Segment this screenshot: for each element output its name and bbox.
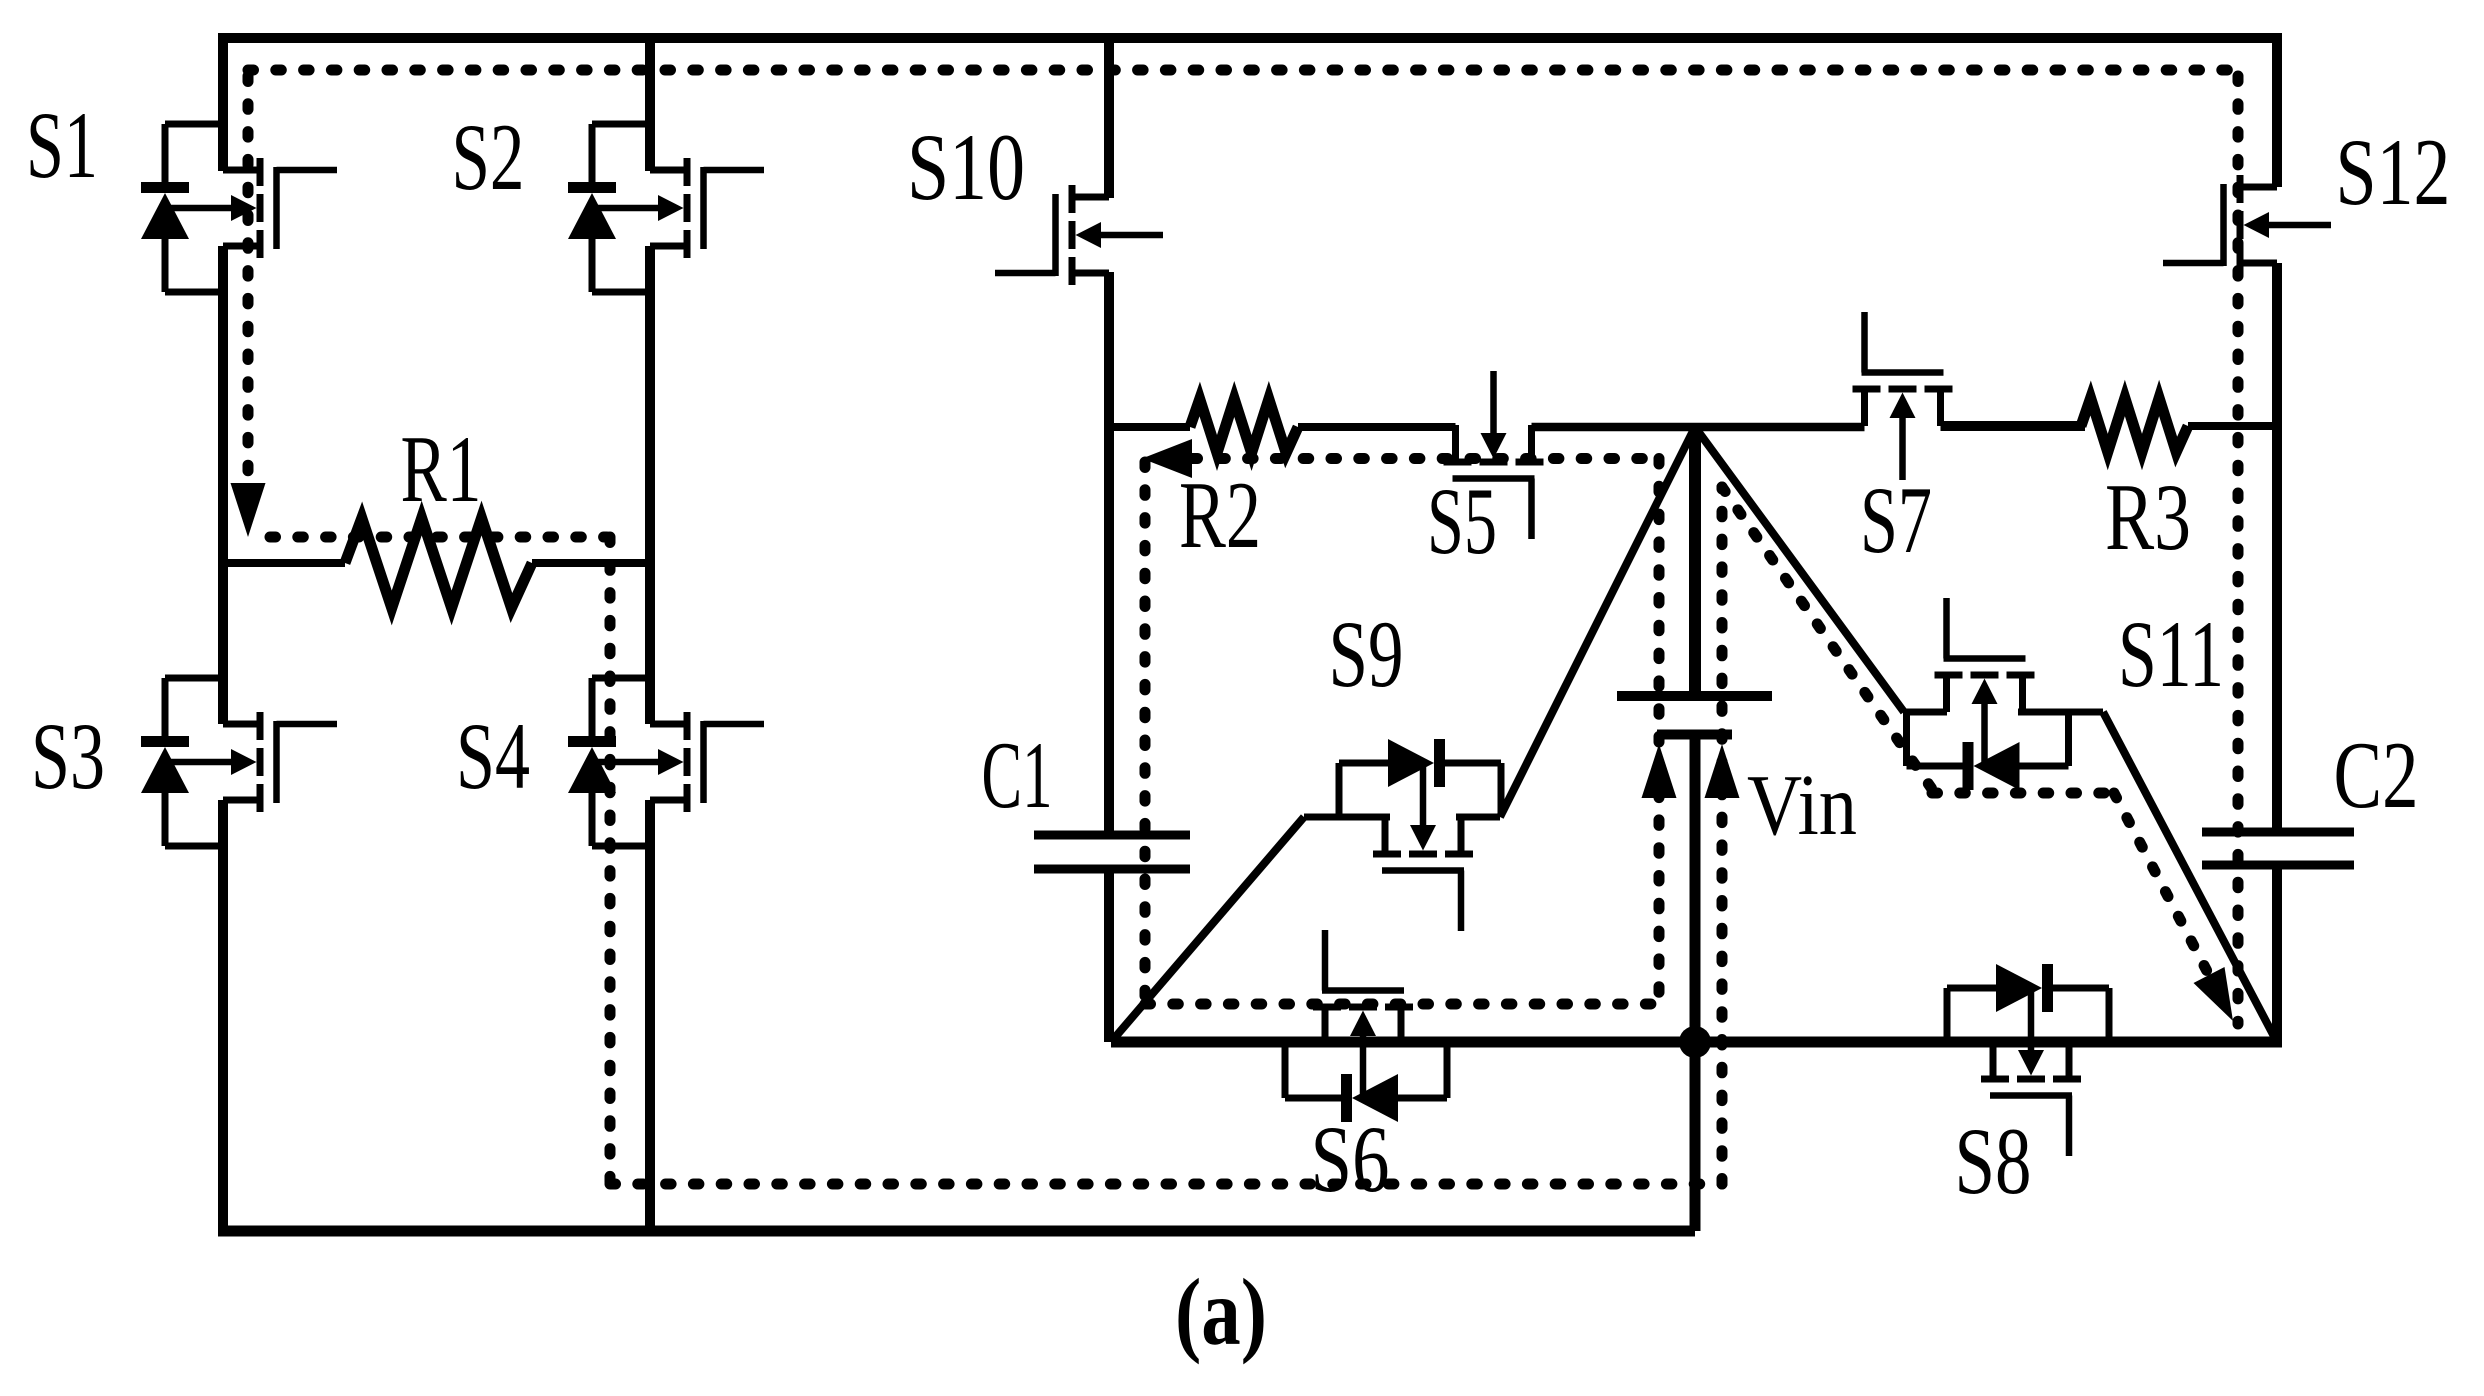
wire dashed inner left vertical: [1140, 462, 1151, 1004]
transistor S2: [568, 124, 764, 292]
wire mid rail left of R2: [1109, 423, 1190, 431]
wire dashed diagonal apex to S11: [1722, 487, 1932, 789]
wire S11 right lead rail: [2018, 709, 2103, 716]
transistor S7: [1853, 312, 1953, 480]
wire left border bus: [218, 33, 228, 171]
svg-text:R1: R1: [401, 416, 482, 522]
wire top border: [218, 33, 2282, 43]
wire diagonal Vin apex to S11: [1695, 427, 1904, 712]
svg-text:S6: S6: [1311, 1106, 1390, 1212]
resistor R3: [2081, 398, 2188, 452]
wire S11 left lead rail: [1904, 709, 1947, 716]
wire dashed diagonal to C2 with arrow: [2114, 793, 2209, 975]
wire dashed along R2 with left arrow: [1192, 453, 1658, 464]
wire dashed Vin right vertical with up arrow: [1717, 487, 1728, 1184]
svg-text:Vin: Vin: [1747, 756, 1857, 853]
wire dashed along R1: [270, 532, 607, 543]
wire dashed S4 vertical: [605, 537, 616, 1184]
wire left bus to R1: [223, 559, 345, 567]
wire dashed right vertical: [2233, 76, 2244, 1024]
svg-text:R2: R2: [1179, 462, 1261, 568]
svg-text:(a): (a): [1175, 1259, 1267, 1365]
wire right border bus: [2272, 33, 2282, 187]
svg-text:C1: C1: [982, 722, 1053, 828]
svg-text:S5: S5: [1427, 468, 1497, 574]
transistor S12: [2163, 175, 2331, 275]
wire R2 to S5: [1298, 423, 1456, 431]
wire S9 right lead rail: [1456, 814, 1500, 821]
svg-text:S10: S10: [907, 114, 1025, 220]
svg-text:S11: S11: [2118, 601, 2224, 707]
transistor S11: [1907, 598, 2069, 790]
transistor S10: [995, 185, 1163, 285]
node Vin junction dot: [1679, 1026, 1711, 1058]
capacitor C2: [2202, 828, 2354, 837]
wire bottom inner rail: [1111, 1037, 2282, 1048]
capacitor C1: [1034, 831, 1190, 840]
transistor S9: [1339, 739, 1501, 931]
wire dashed top path: [248, 65, 2238, 76]
resistor R2: [1190, 399, 1298, 453]
wire S7 to R3: [1941, 421, 2086, 431]
wire diagonal S11 to C2 corner: [2103, 712, 2277, 1042]
svg-text:R3: R3: [2105, 464, 2191, 570]
transistor S5: [1444, 371, 1544, 539]
wire Vin vertical: [1689, 427, 1701, 692]
wire diagonal S9 to Vin apex: [1500, 427, 1695, 817]
svg-text:S4: S4: [456, 703, 530, 809]
wire R1 to middle bus: [532, 559, 650, 567]
svg-text:S3: S3: [31, 703, 105, 809]
wire S9 left lead rail: [1304, 814, 1390, 821]
wire dashed under S11: [1932, 788, 2114, 799]
wire bottom border: [218, 1226, 1695, 1237]
wire S5 to S7 (through Vin node): [1532, 423, 1865, 432]
transistor S8: [1947, 964, 2109, 1156]
transistor S6: [1285, 930, 1447, 1122]
wire R3 to right bus: [2188, 422, 2277, 430]
svg-text:C2: C2: [2334, 722, 2419, 828]
wire dashed Vin left vertical with up arrow: [1654, 459, 1665, 1005]
wire middle vertical bus: [645, 38, 655, 171]
wire S10 branch vertical bus: [1104, 38, 1114, 198]
wire diagonal C1 corner to S9: [1111, 817, 1304, 1042]
capacitor / source Vin: [1617, 691, 1772, 701]
svg-text:S12: S12: [2336, 119, 2451, 225]
svg-text:S7: S7: [1860, 467, 1932, 573]
resistor R1: [345, 518, 532, 608]
wire dashed inner bottom horizontal: [1145, 999, 1659, 1010]
transistor S1: [141, 124, 337, 292]
transistor S3: [141, 678, 337, 846]
svg-text:S8: S8: [1955, 1108, 2032, 1214]
svg-text:S1: S1: [26, 92, 98, 198]
transistor S4: [568, 678, 764, 846]
wire dashed left down branch with arrow: [243, 76, 254, 481]
wire dashed bottom horizontal: [610, 1179, 1722, 1190]
svg-text:S2: S2: [452, 104, 525, 210]
svg-text:S9: S9: [1329, 601, 1404, 707]
